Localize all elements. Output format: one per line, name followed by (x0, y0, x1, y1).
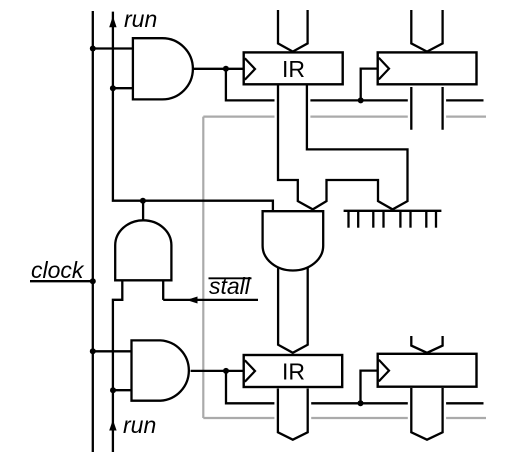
svg-text:clock: clock (31, 257, 85, 283)
svg-text:stall: stall (209, 273, 251, 299)
svg-text:IR: IR (282, 56, 305, 82)
svg-text:run: run (123, 412, 156, 438)
svg-text:run: run (124, 6, 157, 32)
svg-text:IR: IR (282, 359, 305, 385)
